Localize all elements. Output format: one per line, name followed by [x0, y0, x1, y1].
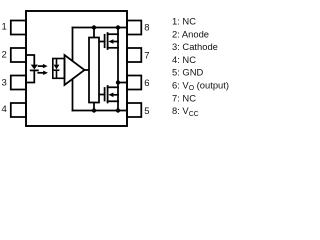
- LED D1 triangle: [31, 65, 38, 70]
- svg-text:4: 4: [2, 104, 7, 115]
- svg-text:4: NC: 4: NC: [172, 54, 196, 65]
- transistor Q2 source stub: [108, 100, 118, 102]
- svg-text:5: 5: [144, 106, 149, 117]
- wire MOSFET drain-source vertical: [117, 28, 119, 111]
- light arrow 1 head: [43, 64, 48, 68]
- transistor Q2 drain stub: [108, 86, 118, 88]
- junction dot GND-driver: [92, 108, 96, 112]
- pin 1 notch: [11, 21, 26, 35]
- node Vcc power line to amp: [72, 28, 74, 111]
- photodiode box: [53, 59, 65, 79]
- LED D1 cathode bar: [31, 69, 38, 71]
- svg-text:3: 3: [2, 77, 7, 88]
- transistor Q1 source stub: [108, 47, 118, 49]
- pin 5 notch: [127, 103, 141, 117]
- pin 4 notch: [11, 103, 26, 117]
- transistor Q2 arrowhead: [108, 93, 113, 98]
- pin 7 notch: [127, 48, 141, 62]
- op-amp U2 amplifier triangle: [65, 55, 85, 85]
- junction dot output node: [116, 80, 120, 84]
- svg-text:6: VO (output): 6: VO (output): [172, 80, 229, 93]
- wire driver bottom ground stub: [93, 103, 95, 111]
- svg-text:1: NC: 1: NC: [172, 16, 196, 27]
- svg-text:2: Anode: 2: Anode: [172, 28, 209, 39]
- transistor Q1 channel bar: [107, 33, 109, 49]
- wire output to pin6: [118, 82, 127, 84]
- transistor Q1 drain stub: [108, 33, 118, 35]
- pin 2 notch: [11, 48, 26, 62]
- wire pin2 anode lead: [26, 55, 34, 65]
- transistor Q2 channel bar: [107, 86, 109, 103]
- transistor Q2 body arrow shaft: [113, 94, 118, 96]
- junction dot GND-Q2: [116, 108, 120, 112]
- wire amp output to driver: [84, 69, 89, 71]
- wire gate lead Q1: [99, 41, 105, 43]
- wire gate lead Q2: [99, 94, 105, 96]
- pin 3 notch: [11, 76, 26, 90]
- svg-text:7: 7: [144, 50, 149, 61]
- wire LED cathode lead to pin3: [26, 70, 34, 82]
- light arrow 1 shaft: [39, 65, 44, 67]
- junction dot Vcc-driver: [92, 25, 96, 29]
- svg-text:7: NC: 7: NC: [172, 92, 196, 103]
- svg-text:1: 1: [2, 21, 7, 32]
- transistor Q2 gate bar: [104, 88, 106, 101]
- driver block: [89, 38, 99, 103]
- IC package body U1: [26, 11, 127, 126]
- svg-text:2: 2: [2, 50, 7, 61]
- light arrow 2 head: [43, 71, 48, 75]
- photodiode D2 leads: [54, 59, 60, 79]
- wire driver top supply stub: [93, 28, 95, 38]
- wire GND rail: [73, 110, 128, 112]
- photodiode D2 triangle: [54, 65, 60, 70]
- svg-text:3: Cathode: 3: Cathode: [172, 41, 218, 52]
- pin 6 notch: [127, 76, 141, 90]
- pin 8 notch: [127, 21, 141, 35]
- svg-text:6: 6: [144, 78, 149, 89]
- transistor Q1 body arrow shaft: [113, 41, 118, 43]
- transistor Q1 gate bar: [104, 35, 106, 47]
- light arrow 2 shaft: [38, 72, 44, 74]
- svg-text:8: 8: [144, 23, 149, 34]
- wire Vcc rail: [73, 27, 128, 29]
- svg-text:5: GND: 5: GND: [172, 67, 203, 78]
- transistor Q1 arrowhead: [108, 39, 113, 44]
- junction dot Vcc-Q1: [116, 25, 120, 29]
